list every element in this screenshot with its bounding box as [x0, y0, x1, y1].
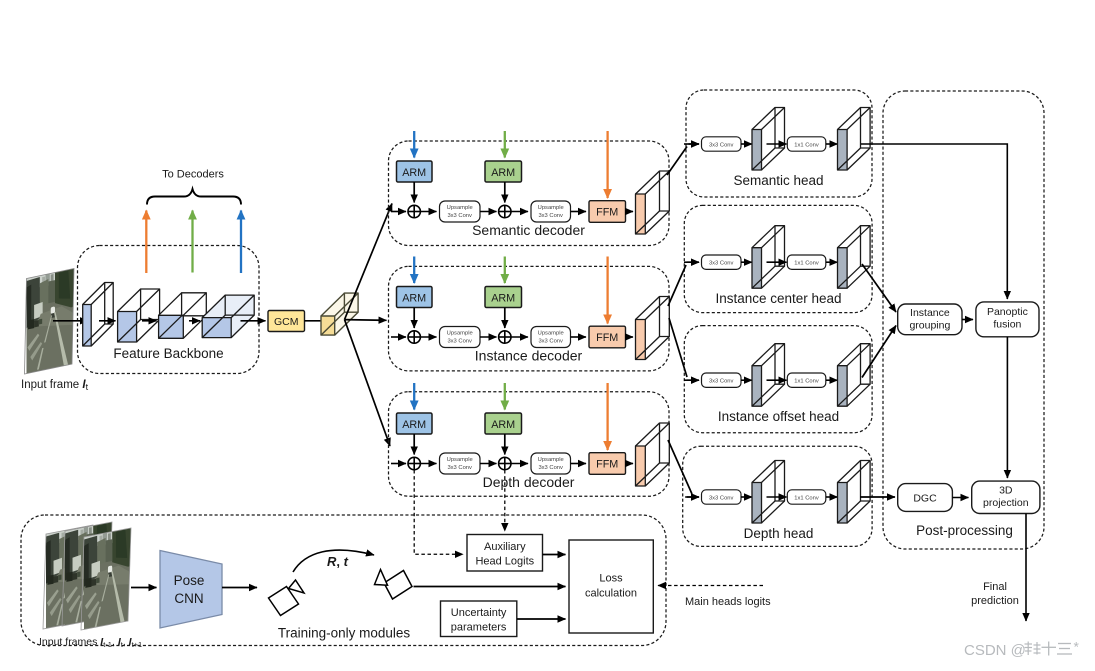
wire panoptic fusion to 3D projection: [1006, 337, 1008, 478]
wire frames to Pose CNN: [131, 587, 157, 589]
svg-text:Training-only modules: Training-only modules: [278, 626, 411, 641]
dashed wire main heads logits to loss: [658, 585, 763, 587]
ARM module (blue) of Instance decoder: [397, 287, 433, 308]
svg-text:Depth head: Depth head: [744, 526, 814, 541]
Pose CNN trapezoid: [160, 551, 222, 629]
wire volume1 to 1x1 conv of Depth-head: [767, 496, 787, 498]
wire into Instance decoder sum1: [391, 336, 406, 338]
3x3 conv box of Depth-head: [702, 490, 742, 504]
output feature volume of Instance decoder: [636, 297, 670, 360]
svg-text:3x3 Conv: 3x3 Conv: [709, 495, 734, 501]
Depth decoder adder 2: [499, 457, 511, 469]
wire conv to volume 1 of Depth-head: [741, 496, 752, 498]
svg-text:3x3 Conv: 3x3 Conv: [447, 465, 472, 471]
fan wire to depth decoder: [345, 320, 391, 446]
Instance decoder dashed container: [389, 266, 670, 371]
svg-text:Final: Final: [983, 581, 1007, 593]
svg-text:3x3 Conv: 3x3 Conv: [709, 261, 734, 267]
skip arrow orange: [145, 211, 147, 274]
skip arrow orange into Depth FFM: [606, 383, 608, 450]
svg-text:Input frames It-1, It, It+1: Input frames It-1, It, It+1: [39, 636, 142, 649]
svg-text:Panoptic: Panoptic: [987, 306, 1028, 318]
wire into Instance-offset-head: [687, 379, 699, 381]
backbone conv block 1: [83, 283, 114, 347]
3x3 conv box of Instance-offset-head: [702, 373, 742, 387]
wire into Depth decoder sum1: [391, 463, 406, 465]
Depth head dashed container: [683, 446, 872, 546]
Semantic decoder adder 1: [408, 205, 420, 217]
wire upsample2 to FFM: [571, 463, 587, 465]
dashed wire depth decoder to auxiliary head logits (top): [504, 470, 506, 531]
wire conv to volume 2 of Instance-center-head: [826, 261, 838, 263]
wire conv to volume 2 of Instance-offset-head: [826, 379, 838, 381]
fan wire to instance decoder: [345, 319, 387, 322]
svg-text:calculation: calculation: [585, 588, 637, 600]
FFM module of Depth decoder: [589, 453, 626, 475]
svg-text:Upsample: Upsample: [538, 205, 564, 211]
svg-text:ARM: ARM: [402, 167, 426, 179]
svg-text:CNN: CNN: [174, 591, 203, 606]
wire ARM blue to adder 1: [413, 308, 415, 329]
wire instance decoder to instance offset head: [669, 318, 687, 377]
svg-text:CSDN @: CSDN @: [964, 642, 1026, 659]
upsample 3x3 conv 1 of Semantic decoder: [440, 201, 481, 222]
wire upsample2 to FFM: [571, 336, 587, 338]
wire conv to volume 2 of Depth-head: [826, 496, 838, 498]
wire into Depth-head: [685, 496, 699, 498]
svg-text:Semantic decoder: Semantic decoder: [472, 222, 585, 238]
svg-text:grouping: grouping: [909, 320, 950, 332]
skip arrow blue into Semantic ARM: [413, 131, 415, 158]
wire volume1 to 1x1 conv of Instance-offset-head: [767, 379, 787, 381]
wire instance offset head to instance grouping: [862, 326, 896, 378]
wire ARM green to adder 2: [504, 308, 506, 329]
FFM module of Instance decoder: [589, 326, 626, 348]
svg-text:Instance offset head: Instance offset head: [718, 409, 839, 424]
svg-text:Feature Backbone: Feature Backbone: [113, 346, 223, 361]
Auxiliary Head Logits box: [467, 535, 543, 572]
FFM module of Semantic decoder: [589, 201, 626, 223]
svg-text:3x3 Conv: 3x3 Conv: [709, 379, 734, 385]
svg-text:Pose: Pose: [174, 573, 205, 588]
Post-processing dashed container: [883, 91, 1044, 549]
watermark CSDN: [964, 639, 1080, 660]
wire upsample1 to adder2: [480, 463, 497, 465]
Depth decoder dashed container: [389, 392, 670, 497]
skip arrow green: [191, 211, 193, 273]
wire into Semantic-head: [689, 143, 700, 145]
wire into Semantic decoder sum1: [391, 211, 406, 213]
svg-text:parameters: parameters: [451, 622, 507, 634]
Semantic decoder adder 2: [499, 205, 511, 217]
3x3 conv box of Instance-center-head: [702, 255, 742, 269]
svg-text:ARM: ARM: [402, 419, 426, 431]
Instance offset head dashed container: [684, 326, 872, 433]
wire into Instance-center-head: [687, 261, 699, 263]
ARM module (green) of Depth decoder: [485, 413, 522, 434]
svg-text:GCM: GCM: [274, 316, 299, 328]
svg-text:Upsample: Upsample: [538, 331, 564, 337]
wire adder2 to upsample2: [511, 463, 528, 465]
svg-text:3x3 Conv: 3x3 Conv: [447, 339, 472, 345]
svg-text:Depth decoder: Depth decoder: [483, 474, 575, 490]
input frames stack: frame t-1: [43, 525, 93, 630]
upsample 3x3 conv 2 of Semantic decoder: [531, 201, 571, 222]
svg-text:Upsample: Upsample: [447, 457, 473, 463]
wire camera 2 to loss calculation: [414, 586, 566, 588]
3D projection box: [972, 481, 1040, 513]
upsample 3x3 conv 2 of Instance decoder: [531, 327, 571, 348]
svg-text:1x1 Conv: 1x1 Conv: [794, 142, 819, 148]
skip arrow blue into Depth ARM: [413, 383, 415, 410]
svg-text:R, t: R, t: [327, 554, 349, 569]
Instance grouping box: [898, 304, 962, 335]
wire FFM to output volume: [626, 336, 634, 338]
wire upsample1 to adder2: [480, 211, 497, 213]
wire FFM to output volume: [626, 211, 634, 213]
camera pose 2: [375, 570, 413, 600]
svg-text:1x1 Conv: 1x1 Conv: [794, 379, 819, 385]
1x1 conv box of Semantic-head: [787, 137, 826, 151]
svg-text:FFM: FFM: [596, 332, 618, 344]
wire instance center head to instance grouping: [862, 264, 896, 312]
svg-text:Main heads logits: Main heads logits: [685, 596, 771, 608]
Semantic decoder dashed container: [389, 141, 670, 246]
1x1 conv box of Instance-offset-head: [787, 373, 826, 387]
ARM module (blue) of Semantic decoder: [397, 161, 433, 182]
svg-text:Input frame It: Input frame It: [21, 379, 89, 392]
feature volume 1 of Instance-center-head: [752, 226, 785, 289]
wire volume1 to 1x1 conv of Instance-center-head: [767, 261, 787, 263]
feature volume 2 of Instance-center-head: [838, 226, 871, 289]
feature volume 1 of Semantic-head: [752, 108, 785, 171]
wire adder1 to upsample1: [420, 211, 436, 213]
wire ARM blue to adder 1: [413, 434, 415, 455]
feature volume 2 of Instance-offset-head: [838, 344, 871, 407]
wire volume1 to 1x1 conv of Semantic-head: [767, 143, 787, 145]
Instance center head dashed container: [684, 205, 872, 312]
wire ARM green to adder 2: [504, 434, 506, 455]
Loss calculation box: [569, 540, 653, 633]
svg-text:Instance: Instance: [910, 307, 950, 319]
wire depth decoder to depth head: [668, 440, 692, 494]
svg-text:3x3 Conv: 3x3 Conv: [709, 142, 734, 148]
svg-text:3D: 3D: [999, 485, 1013, 497]
upsample 3x3 conv 2 of Depth decoder: [531, 453, 571, 474]
Panoptic fusion box: [976, 302, 1039, 337]
input frames stack: frame t: [62, 522, 112, 627]
svg-text:To Decoders: To Decoders: [162, 169, 224, 181]
svg-text:Upsample: Upsample: [538, 457, 564, 463]
skip arrow orange into Instance FFM: [606, 257, 608, 324]
svg-text:3x3 Conv: 3x3 Conv: [538, 465, 563, 471]
GCM module: [268, 311, 305, 332]
wire to final prediction: [1025, 514, 1027, 622]
feature volume 2 of Semantic-head: [838, 108, 871, 171]
wire adder1 to upsample1: [420, 463, 436, 465]
wire adder2 to upsample2: [511, 211, 528, 213]
svg-text:ARM: ARM: [402, 293, 426, 305]
Instance decoder adder 2: [499, 331, 511, 343]
wire ARM blue to adder 1: [413, 182, 415, 203]
wire ARM green to adder 2: [504, 182, 506, 203]
svg-text:projection: projection: [983, 497, 1029, 509]
wire: photo to conv1: [53, 320, 88, 322]
Instance decoder adder 1: [408, 331, 420, 343]
skip arrow green into Semantic ARM: [504, 131, 506, 158]
feature volume 1 of Depth-head: [752, 461, 785, 524]
upsample 3x3 conv 1 of Depth decoder: [440, 453, 481, 474]
3x3 conv box of Semantic-head: [702, 137, 742, 151]
wire: conv1 to conv2: [99, 320, 116, 322]
svg-text:Semantic head: Semantic head: [733, 173, 823, 188]
wire Pose CNN to camera 1: [222, 587, 257, 589]
wire instance grouping to panoptic fusion: [962, 319, 973, 321]
wire conv to volume 1 of Semantic-head: [741, 143, 752, 145]
svg-text:prediction: prediction: [971, 595, 1019, 607]
DGC box: [898, 484, 953, 512]
output feature volume of Semantic decoder: [636, 171, 670, 234]
fan wire to semantic decoder: [345, 204, 393, 320]
wire conv to volume 1 of Instance-offset-head: [741, 379, 752, 381]
feature volume 1 of Instance-offset-head: [752, 344, 785, 407]
svg-text:Upsample: Upsample: [447, 205, 473, 211]
Training-only modules dashed container: [21, 515, 666, 646]
Depth decoder adder 1: [408, 457, 420, 469]
svg-text:ARM: ARM: [491, 419, 515, 431]
wire adder2 to upsample2: [511, 336, 528, 338]
svg-text:FFM: FFM: [596, 207, 618, 219]
Uncertainty parameters box: [441, 601, 517, 637]
feature volume 2 of Depth-head: [838, 461, 871, 524]
svg-text:*: *: [1074, 639, 1080, 655]
1x1 conv box of Depth-head: [787, 490, 826, 504]
svg-text:Head Logits: Head Logits: [475, 556, 534, 568]
skip arrow orange into Semantic FFM: [606, 131, 608, 198]
skip arrow green into Depth ARM: [504, 383, 506, 410]
skip arrow blue into Instance ARM: [413, 257, 415, 284]
ARM module (green) of Semantic decoder: [485, 161, 522, 182]
wire conv to volume 1 of Instance-center-head: [741, 261, 752, 263]
svg-text:Instance center head: Instance center head: [715, 291, 841, 306]
wire upsample2 to FFM: [571, 211, 587, 213]
input frame photo: [25, 268, 75, 374]
wire: GCM to context volume: [305, 320, 330, 322]
svg-text:Auxiliary: Auxiliary: [484, 541, 526, 553]
skip arrow green into Instance ARM: [504, 257, 506, 284]
svg-text:ARM: ARM: [491, 293, 515, 305]
wire uncertainty to loss: [517, 618, 566, 620]
svg-text:1x1 Conv: 1x1 Conv: [794, 261, 819, 267]
backbone conv block 3: [159, 293, 207, 339]
R,t transform arc: [293, 550, 374, 572]
Semantic head dashed container: [686, 90, 872, 197]
wire semantic decoder to semantic head: [667, 147, 687, 176]
svg-text:fusion: fusion: [993, 319, 1021, 331]
backbone conv block 2: [118, 289, 160, 342]
1x1 conv box of Instance-center-head: [787, 255, 826, 269]
wire: conv3 to conv4: [189, 320, 200, 322]
wire conv to volume 2 of Semantic-head: [826, 143, 838, 145]
wire depth head to DGC: [860, 496, 895, 498]
ARM module (blue) of Depth decoder: [397, 413, 433, 434]
svg-text:3x3 Conv: 3x3 Conv: [538, 213, 563, 219]
Feature Backbone dashed container: [78, 246, 260, 374]
wire FFM to output volume: [626, 463, 634, 465]
backbone conv block 4: [202, 295, 254, 338]
svg-text:Instance decoder: Instance decoder: [475, 348, 583, 364]
dashed wire depth decoder to auxiliary head logits (left): [414, 470, 463, 554]
input frames stack: frame t+1: [81, 528, 131, 633]
wire auxiliary to loss: [543, 554, 566, 556]
svg-text:3x3 Conv: 3x3 Conv: [538, 339, 563, 345]
svg-text:FFM: FFM: [596, 459, 618, 471]
svg-text:1x1 Conv: 1x1 Conv: [794, 495, 819, 501]
wire adder1 to upsample1: [420, 336, 436, 338]
wire semantic head to panoptic fusion: [861, 144, 1007, 299]
wire: conv4 to GCM: [241, 320, 266, 322]
context feature volume (yellow 3D box): [321, 293, 358, 335]
ARM module (green) of Instance decoder: [485, 287, 522, 308]
svg-text:Loss: Loss: [599, 573, 623, 585]
svg-text:3x3 Conv: 3x3 Conv: [447, 213, 472, 219]
svg-text:Uncertainty: Uncertainty: [451, 607, 507, 619]
upsample 3x3 conv 1 of Instance decoder: [440, 327, 481, 348]
brace over skip arrows: [147, 189, 241, 205]
output feature volume of Depth decoder: [636, 423, 670, 486]
svg-text:Upsample: Upsample: [447, 331, 473, 337]
skip arrow blue: [240, 211, 242, 274]
wire instance decoder to instance center head: [668, 265, 686, 306]
wire upsample1 to adder2: [480, 336, 497, 338]
svg-text:Post-processing: Post-processing: [916, 523, 1013, 538]
svg-text:DGC: DGC: [913, 493, 937, 505]
wire DGC to 3D projection: [952, 497, 968, 499]
wire: conv2 to conv3: [142, 320, 157, 322]
svg-text:ARM: ARM: [491, 167, 515, 179]
camera pose 1: [269, 580, 305, 616]
